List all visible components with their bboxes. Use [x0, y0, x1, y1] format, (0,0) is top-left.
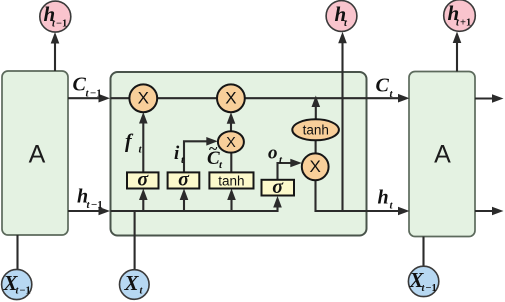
svg-text:X: X	[124, 271, 140, 295]
wire multiply-o down and right to h out	[316, 180, 401, 211]
node X(t-1) right circle	[408, 266, 438, 296]
node h(t-1) circle	[40, 1, 71, 32]
block A right (RNN cell t+1)	[409, 72, 475, 237]
svg-text:−1: −1	[90, 88, 102, 100]
multiply gate o (output)	[302, 153, 329, 180]
wire sigma3 to multiply-o	[278, 163, 298, 180]
svg-text:i: i	[174, 143, 180, 164]
svg-text:−1: −1	[426, 283, 437, 294]
wire sigma1 to multiply1	[142, 116, 144, 172]
svg-text:A: A	[434, 140, 451, 168]
sigma box 1 (forget gate)	[127, 172, 159, 188]
svg-text:t: t	[87, 199, 91, 211]
multiply gate 1 (forget)	[129, 84, 157, 112]
sigma box 3 (output gate)	[262, 180, 295, 196]
wire x(t-1) left into A	[16, 235, 18, 270]
svg-text:σ: σ	[272, 176, 284, 198]
svg-text:A: A	[29, 140, 46, 168]
node X(t-1) left circle	[2, 269, 32, 299]
svg-text:+1: +1	[460, 18, 471, 29]
sigma box 2 (input gate)	[168, 172, 200, 188]
svg-text:C: C	[376, 75, 390, 97]
svg-text:t: t	[390, 200, 394, 212]
svg-text:X: X	[225, 88, 236, 107]
tanh ellipse	[292, 119, 339, 140]
tanh box (candidate)	[209, 172, 253, 188]
wire hidden line inside cell	[111, 200, 278, 211]
svg-text:h: h	[378, 187, 389, 209]
svg-text:−1: −1	[91, 199, 103, 211]
svg-text:tanh: tanh	[218, 174, 244, 189]
wire tanh ellipse to multiply-o	[315, 140, 317, 154]
svg-text:~: ~	[209, 141, 218, 158]
wire tanh ellipse up to C line	[315, 99, 317, 120]
svg-text:o: o	[268, 143, 278, 164]
svg-text:σ: σ	[137, 169, 149, 191]
wire multiply-i to multiply2	[230, 117, 232, 131]
wire sigma2 to multiply-i	[184, 141, 213, 172]
wire C out of right A	[475, 97, 494, 99]
wire h(t-1) into cell	[68, 210, 100, 212]
wire h(t+1) up from right A	[456, 36, 458, 72]
svg-text:tanh: tanh	[303, 123, 329, 138]
wire into tanh box	[230, 192, 232, 211]
svg-text:X: X	[226, 135, 236, 151]
wire h(t) branch up to circle	[341, 36, 343, 211]
multiply gate i (candidate scale)	[218, 131, 244, 152]
wire x right into A	[422, 237, 424, 268]
wire h(t-1) output up from left A	[54, 36, 56, 71]
wire cell-state line C	[111, 97, 401, 99]
svg-text:−1: −1	[20, 286, 31, 297]
LSTM cell body	[111, 72, 367, 236]
wire into sigma3	[273, 196, 282, 208]
svg-text:X: X	[138, 88, 149, 107]
node h(t+1) circle	[444, 0, 476, 31]
svg-text:X: X	[310, 157, 321, 176]
svg-text:C: C	[73, 74, 87, 96]
node h(t) circle	[326, 1, 357, 32]
wire into sigma2	[183, 192, 185, 211]
node X(t) circle	[120, 270, 150, 300]
wire C(t-1) into cell	[68, 97, 100, 99]
wire tanh box to multiply-i	[230, 151, 232, 172]
multiply gate 2 (input merge)	[217, 84, 245, 112]
wire into sigma1	[142, 192, 144, 211]
wire h out of right A	[475, 210, 494, 212]
block A left (RNN cell t-1)	[2, 71, 68, 235]
wire x(t) up into cell	[134, 211, 136, 270]
svg-text:−1: −1	[56, 19, 67, 30]
svg-text:σ: σ	[178, 169, 190, 191]
